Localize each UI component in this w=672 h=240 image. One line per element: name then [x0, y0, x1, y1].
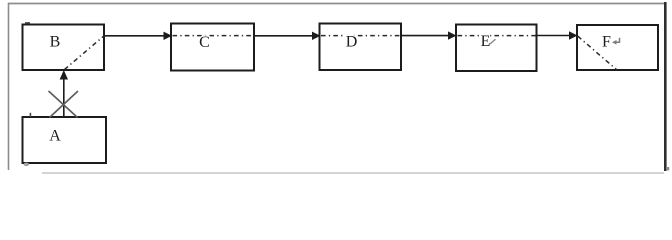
return mark after label F — [612, 38, 620, 45]
arrow A to B — [60, 70, 68, 117]
arrow C to D — [254, 32, 321, 40]
svg-text:C: C — [199, 34, 210, 51]
box A — [23, 117, 107, 163]
arrow E to F — [537, 31, 578, 39]
gray slash after label E — [490, 39, 496, 44]
box E — [456, 25, 537, 72]
frame top border — [8, 3, 666, 5]
dash-dot diagonal inside box F — [578, 36, 617, 70]
svg-text:A: A — [49, 128, 61, 145]
tick on box B top edge — [25, 22, 30, 24]
dash-dot line through box E — [458, 35, 536, 37]
gray X crossing arrow A to B — [49, 91, 79, 118]
frame left border — [8, 3, 10, 170]
svg-text:B: B — [50, 34, 61, 51]
svg-text:F: F — [602, 34, 611, 51]
box D — [320, 24, 402, 71]
frame bottom-right corner blob — [666, 167, 669, 170]
box F — [577, 25, 658, 70]
frame right border — [664, 2, 667, 171]
dash-dot line through box D — [321, 35, 400, 37]
box B — [23, 25, 105, 71]
gray dot at box A bottom-left corner — [24, 163, 29, 167]
arrow D to E — [401, 31, 457, 39]
svg-text:D: D — [346, 34, 358, 51]
arrow B to C — [104, 32, 172, 40]
box C — [171, 24, 254, 71]
svg-text:E: E — [481, 33, 491, 50]
dash-dot line through box C — [173, 35, 254, 37]
dash-dot diagonal inside box B — [65, 36, 104, 70]
frame bottom faint border — [42, 172, 664, 174]
tick above box A top edge — [30, 113, 32, 117]
